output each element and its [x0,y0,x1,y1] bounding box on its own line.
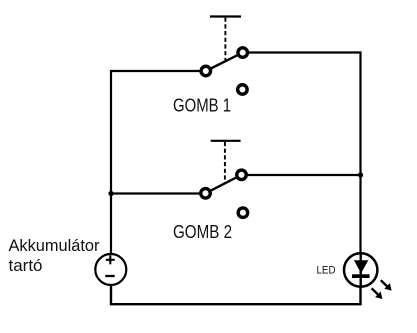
actuator dashed stem [224,18,226,62]
svg-text:GOMB 2: GOMB 2 [173,222,232,242]
spare terminal [238,85,248,95]
wire: battery bottom / bottom rail / LED bottom lead [111,285,361,304]
LED D1 [344,253,392,299]
LED body circle [344,253,377,286]
spare terminal [238,208,248,218]
light arrow lower [372,288,383,299]
junction on left rail [108,191,113,196]
terminal left [201,66,211,76]
light arrow upper [381,280,392,290]
switch lever [206,175,242,194]
cathode bar [352,274,370,278]
wire: switch1 right lead / top-right corner / right rail to LED [248,53,361,254]
actuator dashed stem [224,142,226,184]
wire: switch2 right lead to right rail [247,174,361,176]
terminal right [238,48,248,58]
wire: battery top / left rail / switch1 left lead [111,71,201,255]
button cap bar [210,15,241,17]
junction on right rail [358,172,363,177]
pushbutton GOMB 1 [201,17,247,95]
minus terminal mark [105,275,114,277]
battery body circle [95,254,126,285]
terminal right [237,170,247,180]
svg-text:GOMB 1: GOMB 1 [173,96,231,116]
battery holder B1 [95,254,126,285]
wire: switch2 left lead to left rail [111,192,200,194]
svg-text:Akkumulátor: Akkumulátor [9,236,100,255]
switch lever [206,53,243,71]
lead through body [360,253,362,286]
terminal left [201,189,211,199]
svg-text:tartó: tartó [9,256,43,275]
button cap bar [211,140,241,142]
svg-text:LED: LED [317,265,336,277]
pushbutton GOMB 2 [201,141,248,218]
diode triangle [354,260,368,273]
plus terminal mark [106,259,115,261]
